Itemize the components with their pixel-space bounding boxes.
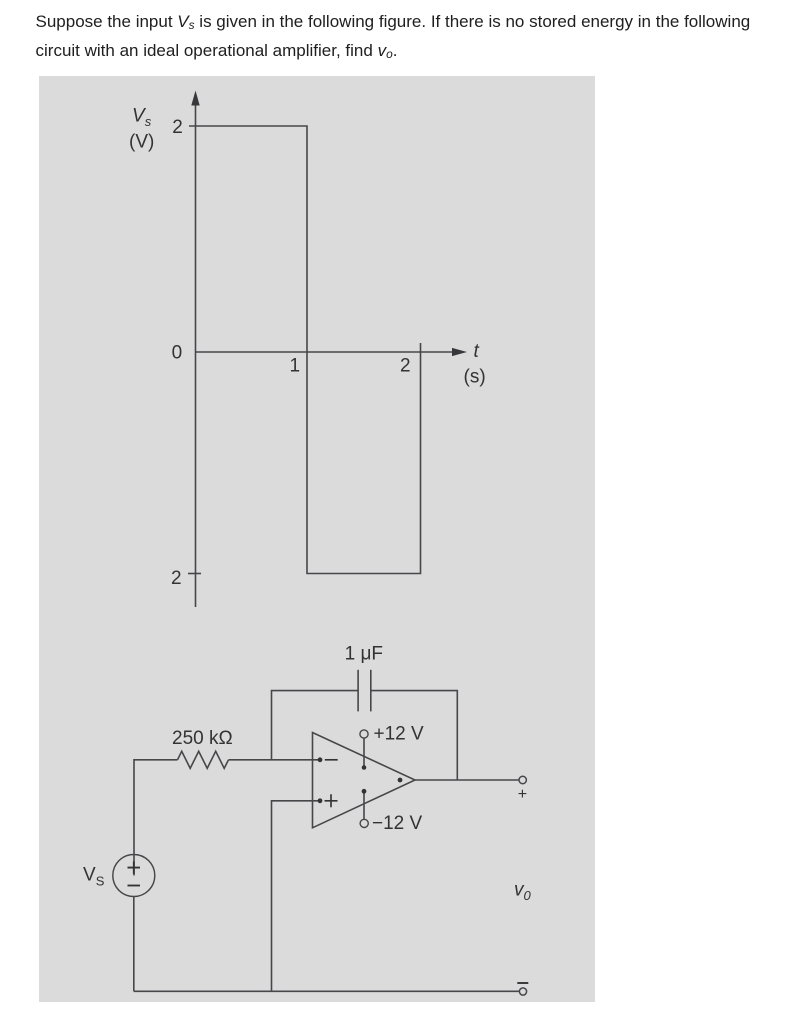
output + terminal circle bbox=[519, 776, 526, 783]
svg-text:2: 2 bbox=[172, 117, 183, 138]
non-inverting input wire: left and down to ground rail bbox=[272, 801, 321, 992]
Vs waveform: +2 from 0..1, -2 from 1..2 bbox=[189, 126, 421, 574]
-12V supply wire dot bbox=[362, 789, 367, 794]
figure panel bbox=[39, 76, 595, 1002]
source Vs circle bbox=[113, 855, 155, 897]
feedback wire: up from inverting node bbox=[272, 691, 359, 760]
capacitor C 1uF right plate bbox=[370, 670, 372, 712]
node dot: non-inverting input bbox=[318, 798, 323, 803]
svg-text:250 kΩ: 250 kΩ bbox=[172, 728, 233, 749]
svg-text:2: 2 bbox=[171, 568, 182, 589]
y-axis arrowhead bbox=[191, 91, 199, 106]
x-axis arrowhead bbox=[452, 348, 467, 356]
op-amp U1 triangle bbox=[313, 733, 416, 828]
wire: source bottom to ground rail bbox=[133, 897, 135, 992]
svg-text:t: t bbox=[474, 341, 480, 362]
svg-text:v0: v0 bbox=[514, 880, 532, 904]
svg-text:1 μF: 1 μF bbox=[345, 644, 383, 665]
svg-text:VS: VS bbox=[83, 865, 105, 889]
ground rail wire bbox=[134, 990, 520, 992]
output pin dot bbox=[398, 778, 403, 783]
waveform graph: y-axis bbox=[195, 101, 197, 607]
capacitor C 1uF left plate bbox=[357, 670, 359, 712]
feedback wire: capacitor to output node bbox=[371, 691, 458, 780]
wire: op-amp output to + terminal bbox=[415, 779, 519, 781]
svg-text:Vs: Vs bbox=[132, 106, 152, 130]
svg-text:(s): (s) bbox=[464, 367, 486, 388]
svg-text:0: 0 bbox=[172, 343, 183, 364]
svg-text:1: 1 bbox=[290, 356, 301, 377]
svg-text:2: 2 bbox=[400, 356, 411, 377]
- inside source bbox=[128, 885, 141, 887]
minus sign at inverting input bbox=[325, 759, 338, 761]
-12V supply wire bbox=[363, 791, 365, 819]
output - terminal circle bbox=[519, 988, 526, 995]
node dot: inverting input bbox=[318, 757, 323, 762]
wire: source top to resistor bbox=[134, 760, 178, 876]
op-amp -12V supply pin circle bbox=[360, 819, 368, 827]
bar over - terminal bbox=[517, 982, 528, 984]
resistor 250 kOhm zigzag bbox=[178, 751, 229, 768]
svg-text:(V): (V) bbox=[129, 132, 154, 153]
svg-text:+12 V: +12 V bbox=[374, 724, 425, 745]
x-axis (t axis) bbox=[196, 351, 461, 353]
+ inside source bbox=[128, 861, 141, 874]
tick at -2 bbox=[188, 573, 201, 575]
+12V supply wire dot bbox=[362, 765, 367, 770]
problem statement bbox=[36, 7, 751, 65]
svg-text:−12 V: −12 V bbox=[372, 813, 423, 834]
op-amp +12V supply pin circle bbox=[360, 730, 368, 738]
wire: resistor to op-amp inverting input bbox=[229, 759, 321, 761]
svg-text:+: + bbox=[518, 786, 527, 803]
+12V supply wire bbox=[363, 738, 365, 767]
plus sign at non-inverting input bbox=[325, 794, 338, 807]
